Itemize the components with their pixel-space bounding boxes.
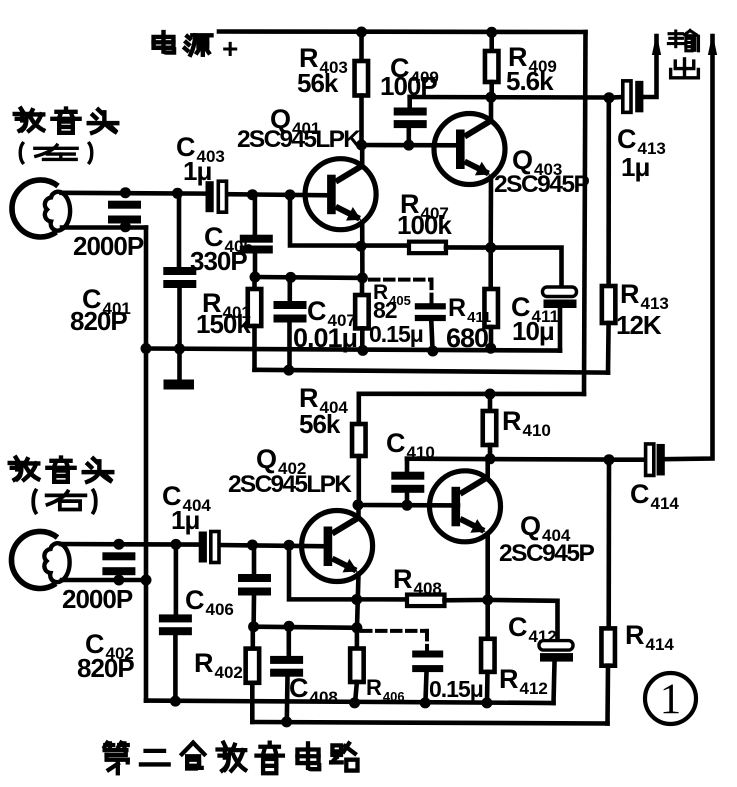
wire C412 bottom lead <box>554 663 555 704</box>
wire C402 bottom lead <box>173 635 178 701</box>
resistor R403 <box>355 61 369 96</box>
wire supply rail R channel <box>359 391 584 396</box>
wire 0.15u bottom lead <box>431 321 432 351</box>
wire R401 top lead <box>252 277 257 289</box>
capacitor 0.15u (R) <box>412 651 443 673</box>
transistor Q404 2SC945P <box>430 471 501 542</box>
wire Q402 collector lead <box>356 505 361 519</box>
wire R404 top lead <box>356 394 361 424</box>
junction emitter wire/R405 <box>357 272 368 283</box>
transistor Q401 2SC945LPK <box>305 159 376 230</box>
wire C413 right lead to output <box>643 36 656 97</box>
junction ground rail/R411 <box>485 343 496 354</box>
wire input wire (C404 to Q402 base) <box>219 545 327 546</box>
wire head R bottom lead <box>62 578 146 583</box>
junction C409/base wire <box>403 140 414 151</box>
label （左） <box>20 143 92 162</box>
capacitor C411 10u <box>543 287 577 308</box>
svg-text:2SC945P: 2SC945P <box>499 540 595 567</box>
label （右） <box>33 490 96 512</box>
junction collector node/R409 <box>486 92 497 103</box>
capacitor C408 <box>270 656 303 677</box>
wire collector node <box>410 95 609 100</box>
wire Q403 collector lead <box>489 97 494 121</box>
wire C413 left lead <box>609 95 623 100</box>
junction input2/C406 <box>247 540 258 551</box>
svg-text:2000P: 2000P <box>62 584 133 614</box>
junction emitter2/R408 wire <box>351 594 362 605</box>
junction head- / 2000P <box>120 221 131 232</box>
wire R413 bottom lead <box>606 323 611 373</box>
node B: Q402 collector <box>353 500 364 511</box>
output arrow (L) <box>652 33 661 55</box>
wire C409 bottom lead <box>406 128 411 145</box>
svg-text:5.6k: 5.6k <box>506 66 554 96</box>
transistor Q402 2SC945LPK <box>302 511 373 582</box>
wire C401 top lead <box>177 193 182 267</box>
wire input wire (head R to C404) <box>61 542 199 547</box>
junction FB rail/C407 <box>283 365 294 376</box>
wire C414 left lead <box>609 457 646 462</box>
wire base node 2 to R408 <box>289 545 407 599</box>
wire R401 bottom lead <box>252 326 257 370</box>
junction Q404 emitter node <box>482 594 493 605</box>
wire C410 top lead <box>405 459 410 472</box>
wire Q401 emitter lead <box>360 222 365 278</box>
wire dashed box right (R406 group) <box>425 631 429 651</box>
resistor R404 56k <box>352 424 366 456</box>
resistor R407 100k <box>409 242 446 254</box>
wire Q403 emitter lead <box>488 177 493 248</box>
wire dashed box top (R405 group) <box>370 278 432 282</box>
wire Q403 emitter to C411 <box>491 248 562 287</box>
capacitor C410 <box>391 472 424 493</box>
resistor R405 82 <box>355 295 369 328</box>
wire input wire (head L to C403) <box>62 191 206 196</box>
svg-text:820P: 820P <box>77 653 134 683</box>
wire R405 bottom lead <box>360 328 365 350</box>
junction input2/R408 branch <box>284 540 295 551</box>
svg-text:56k: 56k <box>299 409 341 439</box>
wire R412 bottom lead <box>485 672 490 703</box>
wire C408 bottom lead <box>284 677 289 722</box>
wire ground stem <box>177 349 182 381</box>
wire Q401 collector lead <box>360 145 365 167</box>
junction input/C401 <box>172 188 183 199</box>
junction emitter2/C408 <box>284 621 295 632</box>
wire R408 to Q404 emitter <box>445 598 488 603</box>
capacitor C404 1u <box>199 532 219 563</box>
wire C406 bottom lead <box>251 596 256 627</box>
junction rail/R403 <box>356 27 367 38</box>
svg-text:0.15μ: 0.15μ <box>429 676 483 702</box>
resistor R410 <box>483 411 497 445</box>
svg-text:10μ: 10μ <box>512 316 554 346</box>
wire C405 bottom lead <box>253 254 258 278</box>
capacitor 2000P (R) <box>102 552 135 575</box>
resistor R412 <box>481 639 495 672</box>
junction emitter2/C406-R402 <box>248 621 259 632</box>
wire R406 top lead <box>355 628 360 649</box>
playback head R (放音头 右) <box>11 531 69 588</box>
capacitor C414 <box>646 444 665 476</box>
junction common vertical/ground rail <box>141 343 152 354</box>
capacitor C409 100P <box>394 108 427 129</box>
capacitor C403 1u <box>206 181 227 212</box>
node 电源+ supply rail <box>219 29 586 34</box>
junction ground rail/C401 <box>174 343 185 354</box>
svg-text:150k: 150k <box>196 309 251 339</box>
wire input wire (C403 to Q401 base) <box>227 194 330 195</box>
junction head+ / 2000P (R) <box>113 539 124 550</box>
wire R406 bottom lead <box>355 682 357 703</box>
svg-text:1μ: 1μ <box>621 152 649 182</box>
wire common ground vertical <box>144 228 149 701</box>
svg-text:2SC945P: 2SC945P <box>494 171 590 198</box>
wire R412 top lead <box>485 600 490 639</box>
junction collector node2/C414/R414 <box>604 454 615 465</box>
wire dashed box top (R406 group) <box>362 629 427 633</box>
wire Q402 emitter lead <box>357 574 359 628</box>
label 放音头 <box>15 109 118 133</box>
wire 0.15u (R) bottom lead <box>425 672 426 703</box>
label 放音头 (R) <box>10 458 113 482</box>
junction rail/R409 <box>486 27 497 38</box>
wire C402 top lead <box>174 544 179 614</box>
capacitor C412 <box>539 641 573 662</box>
svg-text:1μ: 1μ <box>183 156 211 186</box>
junction input2/C402 <box>170 539 181 550</box>
wire Q402 emitter node <box>254 627 357 628</box>
wire feedback rail L channel <box>255 370 609 373</box>
junction C410/base wire 2 <box>402 500 413 511</box>
node A: Q401 collector <box>356 140 367 151</box>
junction emitter/R407 wire <box>356 241 367 252</box>
wire R402 top lead <box>251 627 256 649</box>
capacitor C405 330P <box>240 235 273 254</box>
junction ground rail2/0.15u <box>420 697 431 708</box>
junction emitter2/R406 <box>351 622 362 633</box>
wire R407 to Q403 emitter <box>446 245 491 250</box>
wire R414 top lead <box>606 460 611 629</box>
wire C407 bottom lead <box>287 323 292 371</box>
label caption 第二仓放音电路 <box>105 743 358 774</box>
junction head- / 2000P (R) <box>113 575 124 586</box>
wire C408 top lead <box>286 626 291 656</box>
node figure label ① <box>645 673 696 724</box>
svg-text:82: 82 <box>373 297 397 323</box>
playback head L (放音头 左) <box>12 180 70 237</box>
wire R403 top lead <box>359 32 364 61</box>
wire R403 bottom lead <box>359 96 364 146</box>
svg-text:1: 1 <box>660 676 682 723</box>
junction ground rail/R405 <box>357 345 368 356</box>
wire R404 bottom lead <box>356 456 361 505</box>
junction common vertical/head R <box>141 575 152 586</box>
capacitor 0.15u (L) <box>415 303 446 321</box>
wire C409 top lead <box>407 97 412 108</box>
resistor R401 150k <box>248 289 262 326</box>
svg-text:330P: 330P <box>190 246 247 276</box>
wire R409 top lead <box>489 32 494 51</box>
svg-text:0.15μ: 0.15μ <box>369 321 423 347</box>
wire R402 bottom lead <box>250 683 255 722</box>
wire base node to R407 <box>290 195 409 246</box>
wire R405 top lead <box>360 278 365 295</box>
wire C405 top lead <box>253 195 258 235</box>
wire Q404 collector lead <box>485 459 490 479</box>
wire head L bottom lead <box>62 225 146 230</box>
wire R410 top lead <box>488 394 493 411</box>
junction ground rail2/R412 <box>481 697 492 708</box>
output arrow (R) <box>708 33 717 55</box>
ground <box>164 380 195 390</box>
wire feedback rail R channel <box>252 722 607 724</box>
svg-text:1μ: 1μ <box>171 505 199 535</box>
svg-text:56k: 56k <box>297 68 339 98</box>
junction Q403 emitter node <box>485 242 496 253</box>
wire ground rail L channel <box>146 349 560 351</box>
svg-text:+: + <box>222 33 238 64</box>
capacitor C406 <box>238 574 271 596</box>
resistor R402 <box>246 649 260 683</box>
svg-text:100k: 100k <box>397 210 452 240</box>
resistor R408 <box>407 595 445 607</box>
junction ground rail2/R406 <box>349 697 360 708</box>
wire Q404 emitter to C412 <box>488 600 558 641</box>
wire ground rail R channel <box>146 701 554 703</box>
transistor Q403 2SC945P <box>434 114 505 185</box>
junction collector node/C413/R413 <box>604 92 615 103</box>
capacitor C413 1u <box>623 81 644 113</box>
resistor R411 680 <box>484 289 498 327</box>
svg-text:2SC945LPK: 2SC945LPK <box>228 471 352 498</box>
resistor R406 <box>350 649 364 683</box>
capacitor C401 820P <box>163 267 196 288</box>
svg-text:12K: 12K <box>616 310 662 340</box>
resistor R413 12K <box>602 286 616 323</box>
wire C414 right lead to output <box>665 36 713 459</box>
wire R411 bottom lead <box>489 327 494 348</box>
capacitor C407 0.01u <box>274 301 307 323</box>
wire Q404 emitter lead <box>485 534 490 600</box>
wire C401 bottom lead <box>177 288 182 349</box>
wire Q401 collector to Q403 base <box>362 143 458 148</box>
capacitor C402 820P <box>159 614 192 635</box>
label 输出 (output) <box>668 31 698 51</box>
wire R413 top lead <box>606 98 611 286</box>
junction rail2/R410 <box>485 389 496 400</box>
wire Q401 emitter node <box>255 275 362 280</box>
junction ground rail/0.15u <box>427 346 438 357</box>
svg-text:2SC945LPK: 2SC945LPK <box>237 126 361 153</box>
junction collector node2/R410 <box>485 453 496 464</box>
wire dashed box right (R405 group) <box>430 280 434 303</box>
wire C406 top lead <box>252 545 257 574</box>
svg-text:2000P: 2000P <box>73 231 144 261</box>
junction input/C405 <box>247 189 258 200</box>
junction emitter wire/C405-R401 <box>250 272 261 283</box>
junction input/R407 branch <box>285 189 296 200</box>
wire C410 bottom lead <box>405 493 410 505</box>
wire R414 bottom lead <box>605 666 610 724</box>
junction emitter wire/C407 <box>285 272 296 283</box>
junction head+ / 2000P <box>120 187 131 198</box>
resistor R409 <box>485 51 499 82</box>
wire C407 top lead <box>287 277 292 301</box>
svg-text:820P: 820P <box>70 306 127 336</box>
label 电源 (power) <box>154 32 212 55</box>
wire R409 bottom lead <box>489 82 494 97</box>
wire R410 bottom lead <box>488 445 493 459</box>
wire R411 top lead <box>488 248 493 289</box>
junction FB rail2/C408 <box>281 716 292 727</box>
capacitor 2000P (L) <box>108 201 141 224</box>
resistor R414 <box>601 628 615 665</box>
junction ground rail2/C402 <box>170 696 181 707</box>
svg-text:100P: 100P <box>380 71 437 101</box>
wire C411 bottom lead <box>558 309 563 351</box>
wire supply vertical right edge <box>584 32 586 394</box>
wire Q402 collector to Q404 base <box>358 503 458 508</box>
wire collector node 2 <box>407 456 609 461</box>
